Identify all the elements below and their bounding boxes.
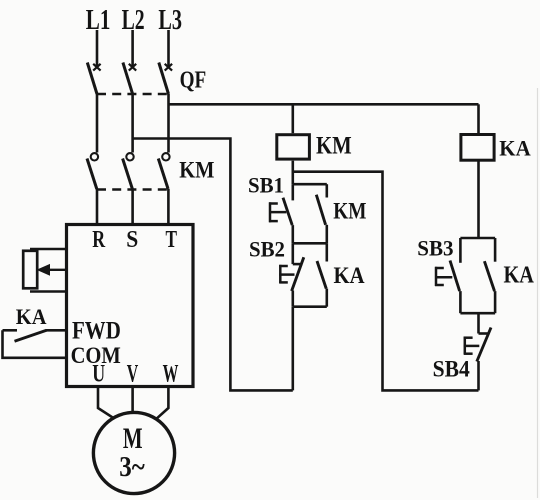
svg-text:U: U <box>92 359 105 388</box>
svg-text:SB4: SB4 <box>433 355 471 381</box>
svg-text:3~: 3~ <box>119 452 145 483</box>
svg-text:S: S <box>126 226 138 253</box>
svg-text:L2: L2 <box>122 5 145 36</box>
svg-text:FWD: FWD <box>72 316 121 345</box>
svg-text:KA: KA <box>334 263 365 289</box>
svg-text:V: V <box>127 359 139 388</box>
svg-text:L3: L3 <box>158 5 182 36</box>
svg-text:KM: KM <box>316 133 352 160</box>
svg-text:T: T <box>166 226 178 253</box>
svg-text:QF: QF <box>180 67 207 93</box>
svg-text:L1: L1 <box>86 5 111 36</box>
svg-text:W: W <box>163 359 179 388</box>
svg-text:KM: KM <box>179 158 214 184</box>
svg-text:KA: KA <box>499 135 531 160</box>
svg-text:SB3: SB3 <box>417 236 453 261</box>
svg-text:KM: KM <box>333 199 366 225</box>
svg-text:SB2: SB2 <box>249 237 285 262</box>
svg-text:M: M <box>123 422 143 455</box>
svg-text:SB1: SB1 <box>248 173 284 198</box>
svg-text:KA: KA <box>504 263 535 289</box>
svg-text:R: R <box>92 226 106 253</box>
svg-text:KA: KA <box>16 304 47 329</box>
